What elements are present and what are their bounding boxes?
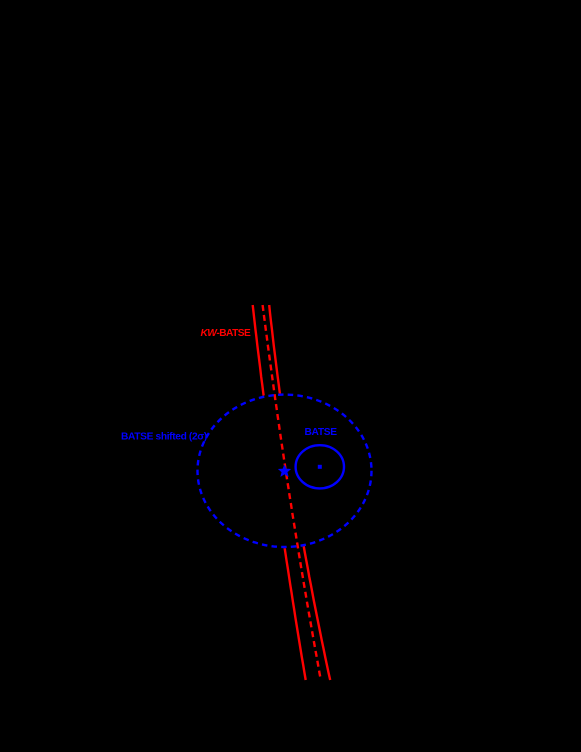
wire [253,305,331,680]
KW-BATSE annulus right boundary [269,305,330,680]
svg-text:BATSE shifted (2σ): BATSE shifted (2σ) [121,432,207,443]
svg-text:BATSE: BATSE [305,427,338,438]
BATSE center square marker [318,465,322,469]
BATSE shifted 2-sigma ellipse (dashed blue) [198,395,372,547]
KW-BATSE annulus left boundary [253,305,306,680]
BATSE error ellipse (solid blue) [296,445,344,488]
KW-BATSE annulus center line (dashed) [263,305,321,680]
svg-text:KW-BATSE: KW-BATSE [201,328,251,339]
star marker at annulus/ellipse center [279,466,289,476]
